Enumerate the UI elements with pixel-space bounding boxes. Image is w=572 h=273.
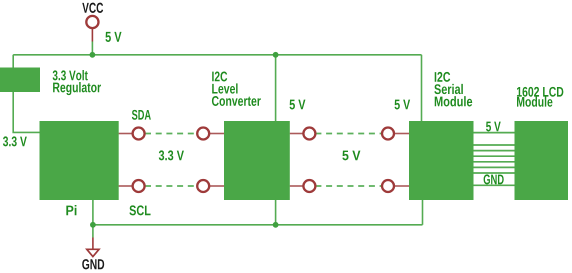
label Level (212, 83, 237, 93)
junction dot VCC on top rail (90, 52, 96, 58)
label GND bottom (82, 259, 104, 269)
wire SCL stub converter to right jumper (290, 185, 304, 187)
label Module lcd (517, 96, 552, 106)
block 1602 LCD Module (515, 121, 569, 200)
junction dot Pi ground on bottom rail (90, 222, 96, 228)
block I2C Serial Module (409, 121, 474, 200)
wire SDA dashed 3.3V segment (145, 133, 197, 135)
label Regulator (53, 82, 101, 95)
block I2C Level Converter (224, 121, 290, 200)
wire bus line 6 (474, 166, 515, 168)
label GND bus (484, 174, 504, 184)
wire SCL dashed 3.3V segment (145, 185, 197, 187)
regulator block 3.3 Volt Regulator (0, 68, 40, 93)
wire SDA stub converter to right jumper (290, 133, 304, 135)
label Pi (66, 205, 76, 215)
wire SDA stub jumper to converter (209, 133, 224, 135)
wire SDA stub jumper to serial module (394, 133, 409, 135)
label 5 V bus (486, 122, 501, 132)
wire bus line 7 (474, 172, 515, 174)
label I2C converter (212, 72, 227, 82)
label 5 V before serial (395, 100, 411, 110)
wire VCC drop red segment (91, 29, 93, 42)
label 3.3 V left (3, 136, 27, 146)
label 5 V after converter (290, 100, 306, 110)
label SDA (132, 110, 151, 120)
wire bus line 2 (474, 144, 515, 146)
jumper circle SCL left b (197, 180, 209, 192)
label SCL (129, 205, 150, 215)
wire SDA stub Pi to jumper (119, 133, 133, 135)
junction dot mid on top rail (273, 52, 279, 58)
label I2C serial (435, 72, 451, 82)
wire bus line 3 (474, 150, 515, 152)
jumper circle SDA right a (303, 128, 315, 140)
label 3.3 Volt (53, 70, 88, 80)
wire right vertical rail to serial module (421, 55, 423, 121)
label 3.3 V jumper (159, 150, 184, 160)
ground symbol (87, 249, 99, 256)
wire bus line 4 (474, 155, 515, 157)
junction dot mid on bottom rail (273, 222, 279, 228)
jumper circle SDA left a (133, 128, 145, 140)
jumper circle SCL left a (133, 180, 145, 192)
VCC terminal circle (86, 16, 98, 28)
wire bus line 8 GND (474, 184, 515, 186)
jumper circle SCL right b (382, 180, 394, 192)
jumper circle SCL right a (303, 180, 315, 192)
wire mid vertical 5V feed (275, 55, 277, 225)
wire bus line 1 5V (474, 132, 515, 134)
wire SCL stub jumper to serial module (394, 185, 409, 187)
label 1602 LCD (517, 87, 563, 97)
wire bus line 5 (474, 161, 515, 163)
wire left vertical rail to Pi (13, 55, 40, 133)
wire right vertical serial module to ground rail (422, 200, 424, 225)
wire SCL stub Pi to jumper (119, 185, 133, 187)
wire Pi ground drop green (92, 200, 94, 238)
wire SDA dashed 5V segment (315, 133, 382, 135)
label Module serial (435, 96, 472, 106)
wire Pi ground drop red (92, 238, 94, 249)
label VCC (82, 3, 103, 13)
wire SCL dashed 5V segment (315, 185, 382, 187)
label 5 V jumper (342, 151, 360, 161)
jumper circle SDA right b (382, 128, 394, 140)
wire SCL stub jumper to converter (209, 185, 224, 187)
wire VCC drop green segment (91, 42, 93, 55)
label Serial (434, 84, 463, 94)
wire bottom ground rail (93, 224, 423, 226)
label Converter (212, 96, 261, 106)
label 5 V top rail (105, 32, 121, 42)
jumper circle SDA left b (197, 128, 209, 140)
block Pi (40, 121, 119, 200)
wire top 5V rail (13, 54, 421, 56)
